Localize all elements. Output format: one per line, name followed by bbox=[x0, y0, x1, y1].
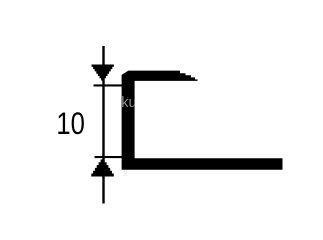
arrowhead top (stepped, pointing down) bbox=[92, 65, 114, 81]
svg-text:10: 10 bbox=[56, 105, 85, 141]
svg-text:ku: ku bbox=[121, 95, 136, 111]
extension tick bottom bbox=[95, 156, 122, 158]
extension tick top bbox=[94, 84, 122, 86]
dimension line (vertical) bbox=[102, 46, 104, 204]
watermark ku on profile wall bbox=[121, 95, 136, 111]
arrowhead bottom (stepped, pointing up) bbox=[91, 160, 114, 177]
svg-text:2: 2 bbox=[124, 171, 128, 178]
profile outline (edge trim cross-section) bbox=[122, 71, 283, 170]
